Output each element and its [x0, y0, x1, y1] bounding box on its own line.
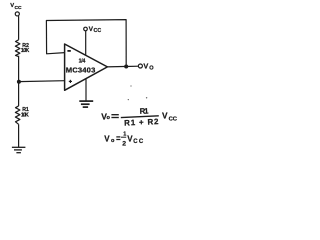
resistor R1 10K	[15, 106, 29, 124]
formula Vo = 1/2 Vcc	[104, 132, 144, 148]
svg-text:CC: CC	[169, 117, 178, 123]
wire R1 bottom to ground	[18, 124, 20, 147]
node output junction dot	[124, 65, 128, 69]
svg-text:o: o	[111, 138, 115, 144]
svg-text:CC: CC	[94, 28, 102, 34]
svg-text:o: o	[107, 115, 111, 121]
svg-text:R1: R1	[140, 106, 150, 115]
ground (bottom-left)	[12, 147, 26, 152]
pin + (non-inverting input mark)	[69, 80, 72, 83]
wire junction to op-amp + input	[19, 80, 65, 83]
ground (op-amp ground pin)	[79, 101, 93, 107]
node junction dot (divider tap)	[17, 80, 21, 84]
pin - (inverting input mark)	[67, 50, 70, 52]
svg-text:10K: 10K	[21, 113, 29, 119]
wire R2 bottom to R1 top	[18, 56, 20, 106]
op-amp U1 (1/4 MC3403)	[65, 44, 108, 90]
wire Vcc terminal to R2 top	[18, 16, 20, 40]
node Vcc terminal (top-left)	[10, 3, 22, 16]
svg-text:2: 2	[122, 141, 126, 148]
svg-text:O: O	[149, 66, 154, 72]
svg-text:MC3403: MC3403	[66, 66, 96, 75]
svg-text:V: V	[143, 62, 148, 71]
wire op-amp output to Vo terminal	[106, 65, 139, 68]
node Vo terminal	[138, 62, 154, 72]
scan speckles	[128, 85, 148, 100]
svg-text:R1 + R2: R1 + R2	[124, 117, 159, 128]
wire Vcc pin to op-amp top edge	[85, 31, 87, 56]
svg-text:V: V	[162, 111, 168, 121]
wire feedback loop: output junction up, across top, down to inverting input	[46, 20, 126, 67]
svg-text:1/4: 1/4	[79, 58, 86, 64]
wire op-amp bottom edge to ground pin	[85, 79, 87, 102]
svg-text:10K: 10K	[21, 48, 30, 54]
resistor R2 10K	[15, 40, 29, 57]
svg-text:CC: CC	[15, 5, 23, 11]
svg-text:CC: CC	[133, 139, 144, 145]
formula Vo = R1/(R1+R2) Vcc	[101, 106, 178, 127]
node Vcc power pin of op-amp	[84, 26, 102, 34]
svg-text:V: V	[104, 134, 110, 143]
